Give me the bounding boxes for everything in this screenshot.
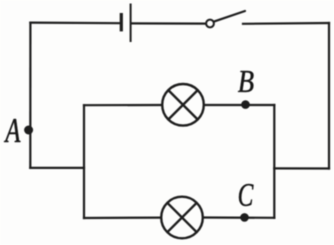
wire: inner left vertical of parallel block (83, 105, 85, 218)
wire: left connector into parallel block (30, 167, 84, 169)
wire: top branch left segment (84, 104, 162, 106)
node A label (4, 119, 20, 142)
switch S1 lever (open) (214, 11, 245, 21)
node C label (239, 184, 254, 206)
lamp L1 cross (168, 90, 197, 119)
battery B1 positive plate (long thin) (130, 4, 132, 43)
wire: battery to switch (132, 22, 206, 24)
wire: top branch right segment (205, 104, 275, 106)
wire: left outer vertical (29, 23, 31, 168)
wire: bottom branch left segment (84, 217, 161, 220)
wire: right connector into parallel block (274, 167, 329, 169)
node C junction dot (240, 213, 249, 222)
wire: top left horizontal from left corner to battery (30, 22, 120, 25)
switch S1 pivot circle (206, 20, 214, 28)
lamp L2 cross (167, 203, 196, 232)
node B label (238, 71, 254, 92)
node A junction dot (24, 126, 33, 135)
wire: bottom branch right segment (204, 216, 275, 219)
wire: right outer vertical (328, 23, 330, 169)
wire: switch to top right corner (243, 22, 329, 25)
node B junction dot (241, 100, 250, 109)
wire: inner right vertical of parallel block (273, 105, 275, 218)
lamp L2 (bottom branch) circle (161, 197, 203, 239)
battery B1 negative plate (short thick) (120, 13, 123, 31)
lamp L1 (top branch) circle (162, 84, 204, 126)
